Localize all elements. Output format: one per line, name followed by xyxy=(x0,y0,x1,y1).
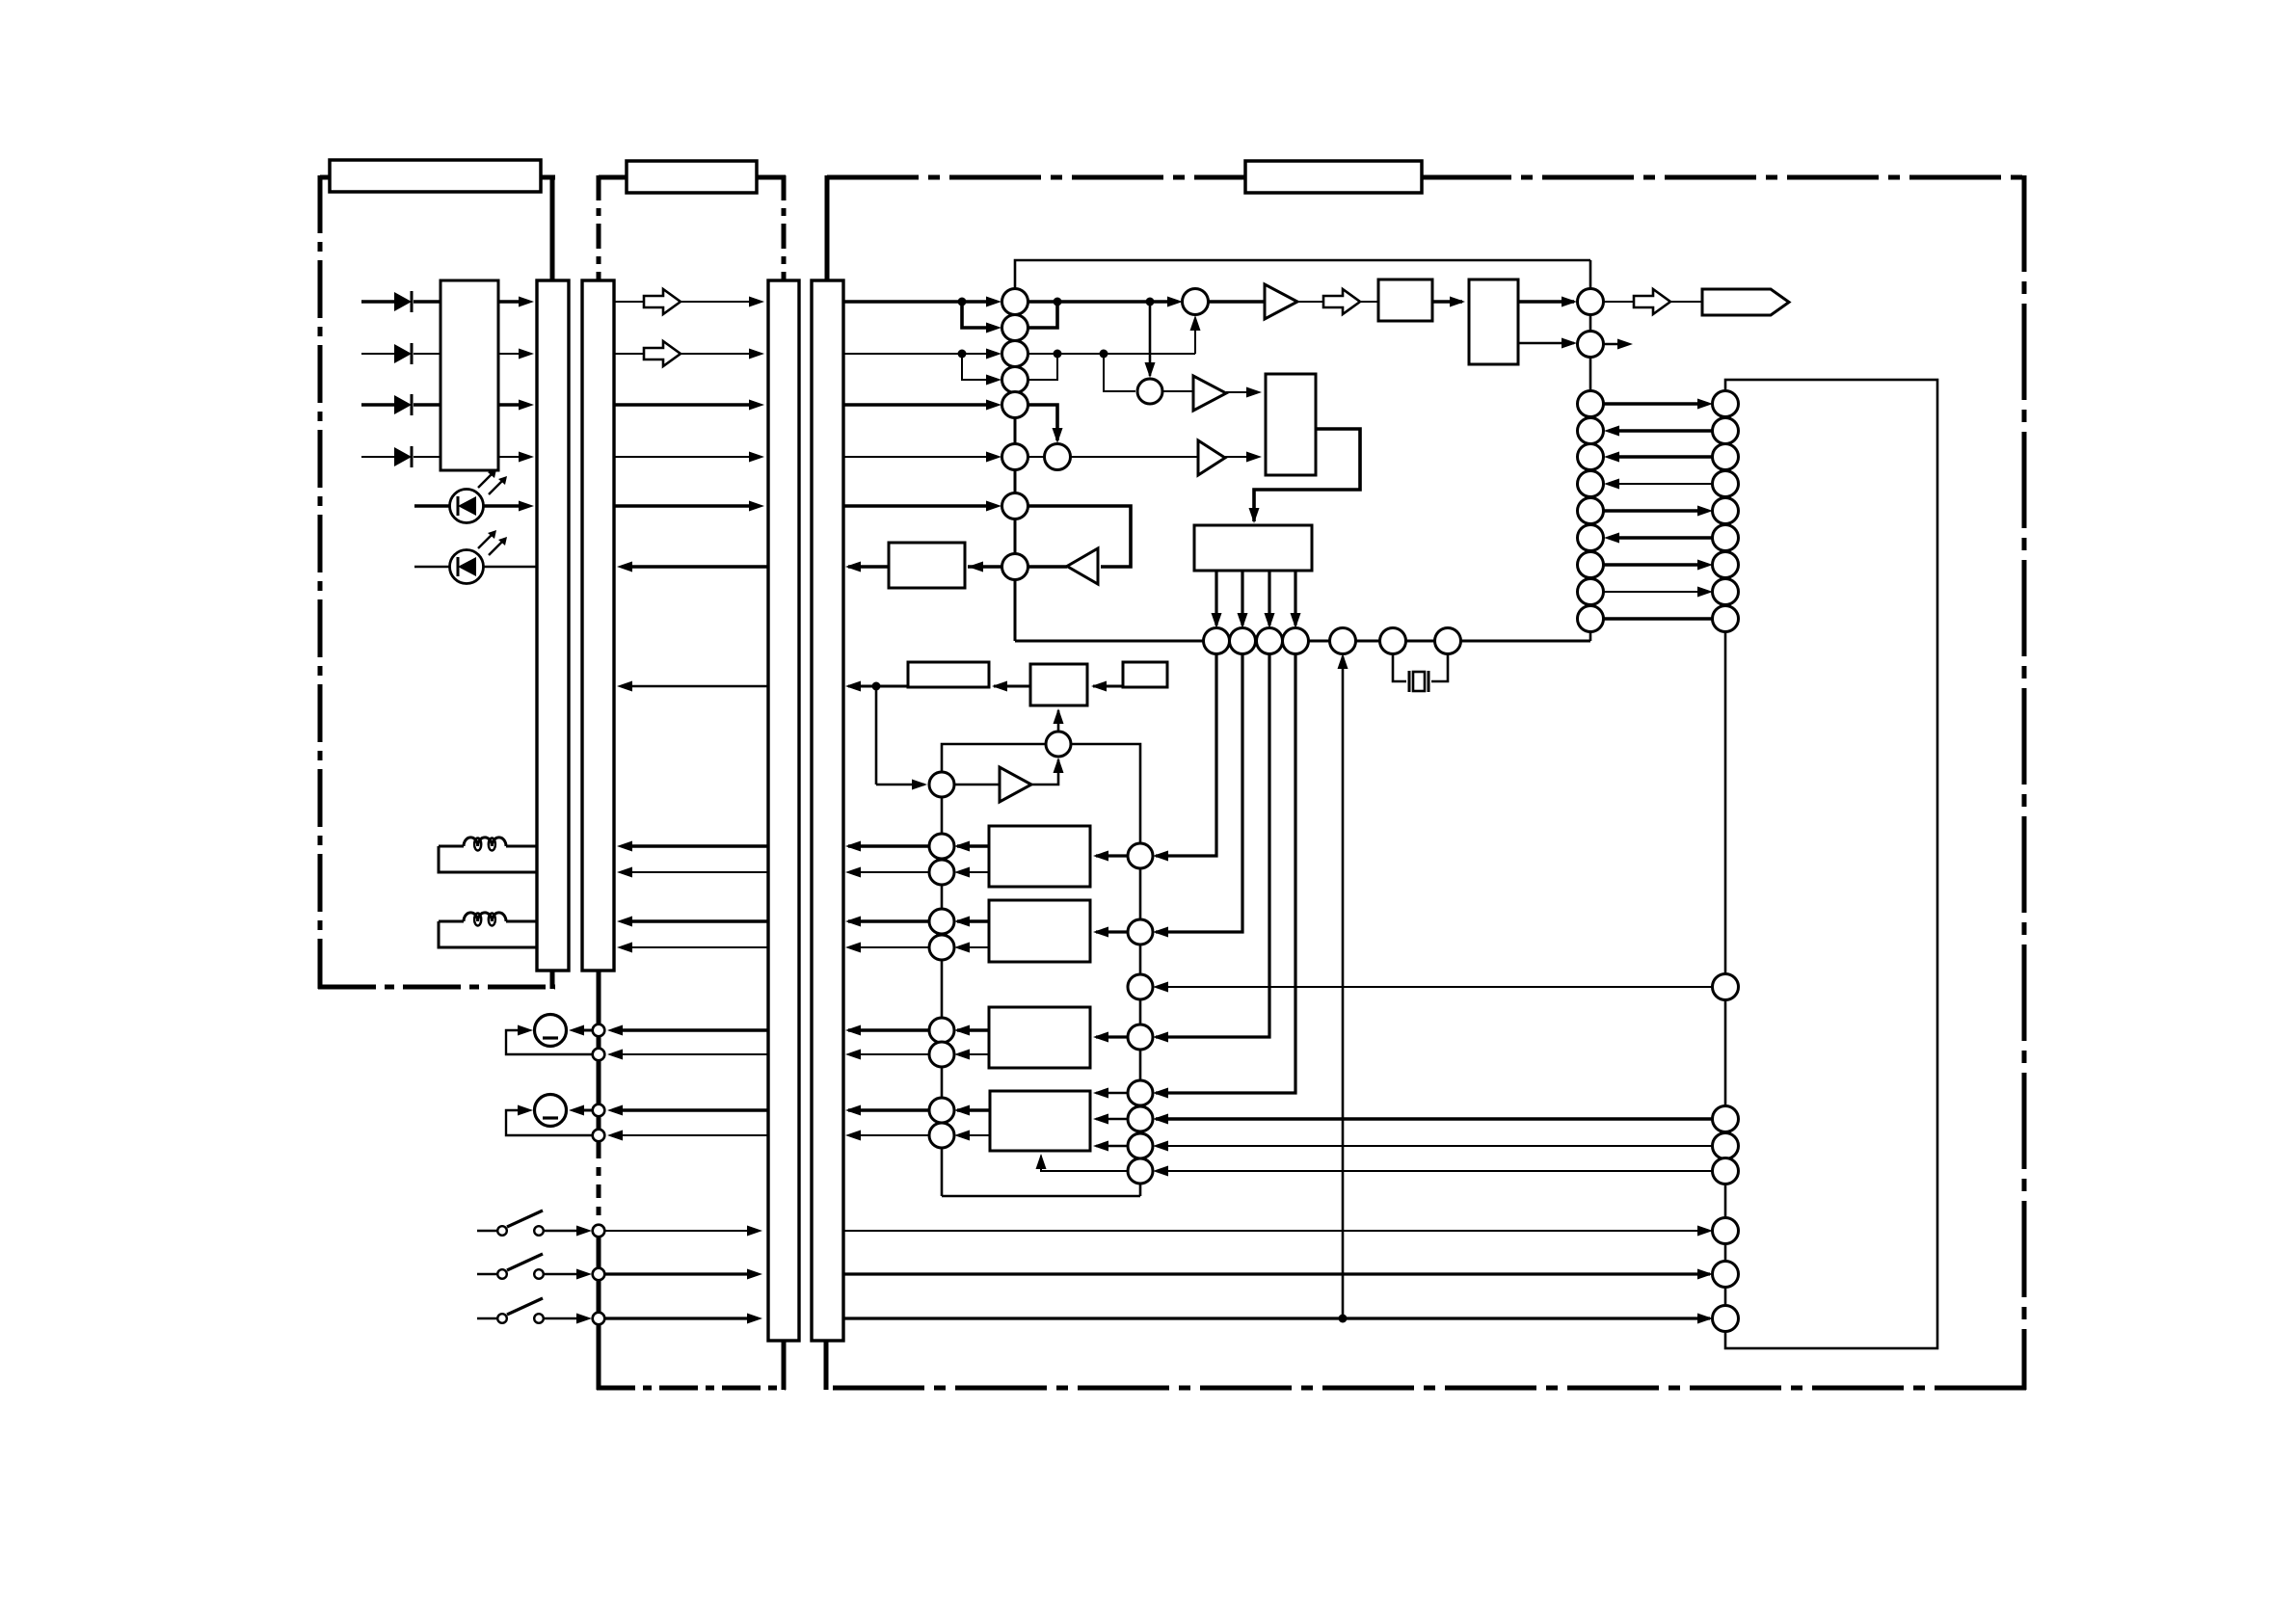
wire amp A4 output up into node xyxy=(1031,759,1058,785)
box R5 (osc) xyxy=(1123,662,1167,687)
pin circle SW3 on border xyxy=(593,1313,605,1325)
wire row y=588 output chain xyxy=(848,565,902,569)
wire branch 313->340 xyxy=(962,302,989,328)
section board 1 outline (dash-dot border, left board) xyxy=(318,175,555,989)
wire elbow 420 down to node xyxy=(1028,405,1057,440)
wire feedback AGC loop top xyxy=(1015,260,1590,289)
wire crossover 367->394 xyxy=(1028,354,1057,380)
photo diode PD1 xyxy=(394,292,412,311)
wire node pair link y=474 xyxy=(1028,456,1045,458)
wire LED2 drive row y=588 xyxy=(414,566,449,569)
node C6R xyxy=(1045,444,1071,470)
section board 2 outline (dash-dot border, middle board) xyxy=(597,175,786,1390)
box R2 (modulator) xyxy=(1469,279,1518,364)
flag pointer (to next sheet) xyxy=(1702,289,1789,315)
junction dot row 712 xyxy=(872,682,881,691)
wire photodetector input row y=313 xyxy=(361,300,396,304)
wire board2 row y=588 (return) xyxy=(632,565,768,569)
wire node up into box R4 xyxy=(1057,710,1060,732)
switch SW2 row y=1322 xyxy=(477,1273,497,1275)
crystal X1 circuit xyxy=(1393,653,1406,681)
node column bus x=1183 control xyxy=(1071,744,1140,1196)
wire feedback loop 525->588 xyxy=(1028,506,1131,567)
wire main bus y=665 xyxy=(1015,640,1590,643)
box R1 (filter) xyxy=(1378,279,1432,321)
wire switch rows to IC pins xyxy=(843,1230,1710,1232)
output node O2 xyxy=(1578,332,1604,358)
head amplifier box (board1) xyxy=(441,280,498,470)
switch SW3 row y=1368 xyxy=(477,1317,497,1319)
summing node S1 xyxy=(1183,289,1209,315)
wire driver D4 inputs xyxy=(1096,1092,1128,1095)
label box 1 (board 1 title) xyxy=(330,160,541,192)
label box 2 (board 2 title) xyxy=(627,161,757,193)
wire photodetector input row y=420 xyxy=(361,403,396,407)
photo diode PD3 xyxy=(394,395,412,414)
op-amp A2 xyxy=(1193,376,1226,411)
motor M2 xyxy=(535,1095,567,1127)
connector CN-D (board3 edge) xyxy=(812,280,843,1341)
wire photodetector to head-amp row y=474 xyxy=(414,456,441,458)
section board 3 outline (dash-dot border, right board) xyxy=(824,175,2026,1390)
driver box D2 xyxy=(989,900,1090,962)
node CN (loop node) xyxy=(1046,732,1071,757)
pin circle SW2 on border xyxy=(593,1268,605,1281)
wire line y=1161 from IC xyxy=(1156,1117,1713,1120)
node C8 xyxy=(1002,554,1028,580)
wire row y=525 xyxy=(843,504,989,508)
wide register WR xyxy=(1194,525,1312,571)
wire LED1 drive row y=525 xyxy=(414,504,449,508)
switch SW1 row y=1277 xyxy=(477,1230,497,1232)
wire photodetector input row y=367 xyxy=(361,353,396,355)
box R4 (PLL) xyxy=(1030,664,1087,705)
wire sense line y=1024 from IC xyxy=(1156,986,1713,988)
driver box D3 xyxy=(989,1007,1090,1068)
op-amp A5 (reverse) xyxy=(1067,548,1098,584)
wire S2 to amp A2 xyxy=(1162,390,1192,392)
wire IC pin rows xyxy=(1604,402,1700,405)
wire control verticals to driver rows xyxy=(1156,653,1216,856)
wire branch 367->394 xyxy=(962,354,989,380)
wire O2 stub arrow xyxy=(1603,343,1620,345)
node C5 xyxy=(1002,392,1028,418)
wire motor M1 drive row y=1069 xyxy=(620,1028,768,1032)
wire photodetector input row y=474 xyxy=(361,456,396,458)
photo diode PD4 xyxy=(394,447,412,466)
op-amp A1 xyxy=(1265,284,1297,319)
pin circle M1 drive xyxy=(593,1024,605,1037)
wire row y=474 xyxy=(843,456,989,458)
pin circle M2 feedback xyxy=(593,1130,605,1142)
wire row y=420 xyxy=(843,403,989,407)
pin column x=1650 xyxy=(1589,260,1592,641)
wire switch SW3 to connector row y=1368 xyxy=(605,1317,751,1319)
servo column pin circles x=977 xyxy=(929,834,954,859)
summing node S3 xyxy=(929,772,954,797)
wire board2 row y=367 with bus arrow xyxy=(614,353,644,355)
wire R2 lower output to node O2 xyxy=(1518,342,1574,344)
wire line y=1215 from IC xyxy=(1156,1170,1713,1172)
driver box D1 xyxy=(989,826,1090,887)
pin circle SW1 on border xyxy=(593,1225,605,1237)
connector CN-A (board1 edge) xyxy=(537,280,569,971)
wire row y=367 xyxy=(843,353,989,355)
wire bus arrow to box R1 xyxy=(1360,301,1378,303)
wire row y=712 chain R5->R4->R3->connector xyxy=(848,685,908,688)
node C4 xyxy=(1002,367,1028,393)
wire board2 motor-drive row y=905 xyxy=(632,871,768,873)
wire board2 row y=525 xyxy=(614,504,753,508)
pin column left (board3 to IC) xyxy=(1578,391,1604,417)
wire driver D4 bottom strobe xyxy=(1041,1156,1128,1171)
wire drop 313 to summing node S2 xyxy=(1149,302,1152,376)
wire line y=1189 from IC xyxy=(1156,1145,1713,1147)
wire driver D3 input xyxy=(1096,1035,1128,1038)
op-amp A4 xyxy=(1000,767,1031,802)
photo diode PD2 xyxy=(394,344,412,363)
connector CN-B (board2 left edge) xyxy=(582,280,614,971)
wire amp A2 to box B1 xyxy=(1226,391,1249,393)
box R3 (driver) xyxy=(908,662,989,687)
wire switch SW1 to connector row y=1277 xyxy=(605,1230,751,1232)
node C1 xyxy=(1002,289,1028,315)
wire board2 motor-drive row y=956 xyxy=(632,919,768,923)
connector CN-C (board2 right edge) xyxy=(768,280,799,1341)
node C6L xyxy=(1002,444,1028,470)
LED D5 (laser diode) xyxy=(450,490,484,523)
wire board2 row y=712 (return) xyxy=(632,685,768,687)
wire WR outputs down to bus pins xyxy=(1215,571,1217,625)
wire driver D2 input xyxy=(1096,930,1128,933)
wire driver outputs to connector xyxy=(957,844,989,847)
box B1 (decoder) xyxy=(1266,374,1316,475)
wire 367 branch to summing node S2 xyxy=(1104,354,1135,391)
node column bus x=977 servo xyxy=(941,797,944,1196)
wire head-amp output to connector row y=367 xyxy=(498,353,521,355)
pin circle M1 feedback xyxy=(593,1049,605,1061)
wire row y=313 RF signal xyxy=(843,300,989,304)
motor M1 xyxy=(535,1015,567,1047)
op-amp A3 xyxy=(1198,440,1225,475)
wire head-amp output to connector row y=474 xyxy=(498,456,521,458)
junction dots row 367 xyxy=(958,350,967,359)
node column bus x=1053 xyxy=(1014,289,1017,641)
bus block arrow (after A1) xyxy=(1323,289,1360,314)
wire board2 row y=313 with bus arrow xyxy=(614,301,644,303)
bus pin circles y=665 xyxy=(1204,628,1230,654)
driver box D4 xyxy=(990,1091,1090,1151)
wire photodetector to head-amp row y=420 xyxy=(414,403,441,407)
wire box B1 step to wide register WR xyxy=(1254,429,1360,521)
wire row y=313 after node xyxy=(1028,300,1170,304)
motor winding L1 (coil) rows 878/905 xyxy=(439,845,464,848)
box RB (output buffer) xyxy=(889,543,965,588)
output node O1 xyxy=(1578,289,1604,315)
wire photodetector to head-amp row y=313 xyxy=(414,300,441,304)
LED D6 (laser diode) xyxy=(450,550,484,584)
wire drop 712 to summing node S3 xyxy=(875,686,878,785)
node C2 xyxy=(1002,315,1028,341)
wire 367 up into summing node S1 xyxy=(1194,318,1196,354)
wire photodetector to head-amp row y=367 xyxy=(414,353,441,355)
summing node S2 xyxy=(1137,379,1162,404)
wire board2 row y=420 xyxy=(614,403,753,407)
wire motor M2 feedback loop y=1178 xyxy=(620,1134,768,1136)
wire head-amp output to connector row y=420 xyxy=(498,403,521,407)
junction dot switch row 3 xyxy=(1339,1315,1348,1323)
node C3 xyxy=(1002,341,1028,367)
motor winding L2 (coil) rows 956/983 xyxy=(439,920,464,923)
pin circle M2 drive xyxy=(593,1104,605,1117)
control column pin circles x=1183 xyxy=(1128,843,1153,868)
wire S3 feedback top y=772 xyxy=(942,744,1046,772)
wire driver D1 input xyxy=(1096,854,1128,857)
junction dots row 313 xyxy=(958,298,967,306)
wire S3 to amp A4 xyxy=(954,784,999,786)
wire amp A1 to bus arrow xyxy=(1297,301,1323,303)
wire motor M1 feedback loop y=1094 xyxy=(620,1053,768,1055)
wire board2 row y=474 xyxy=(614,456,753,458)
wire switch SW2 to connector row y=1322 xyxy=(605,1272,751,1275)
wire up from switch row to bus pin xyxy=(1342,656,1345,1318)
wire R2 to output node O1 xyxy=(1518,300,1574,304)
wire crossover 313->340 xyxy=(1028,302,1057,328)
wire row y=367 after node xyxy=(1028,353,1195,355)
IC pin column xyxy=(1713,391,1739,417)
wire S1 to amp A1 xyxy=(1209,300,1264,304)
bus block arrow (after O1) xyxy=(1634,289,1670,314)
wire head-amp output to connector row y=313 xyxy=(498,300,521,304)
wire amp A3 to box B1 xyxy=(1225,456,1249,458)
wire node to amp A3 xyxy=(1071,456,1197,458)
wire motor M2 drive row y=1152 xyxy=(620,1108,768,1112)
label box 3 (board 3 title) xyxy=(1245,161,1422,193)
IC U1 (system controller) xyxy=(1725,380,1937,1348)
wire R1 to R2 xyxy=(1432,300,1462,304)
wire board2 motor-drive row y=878 xyxy=(632,844,768,848)
node C7 xyxy=(1002,493,1028,519)
wire O1 to flag pointer xyxy=(1603,301,1634,303)
wire bus bottom link y=1241 xyxy=(942,1195,1140,1198)
wire board2 motor-drive row y=983 xyxy=(632,946,768,948)
